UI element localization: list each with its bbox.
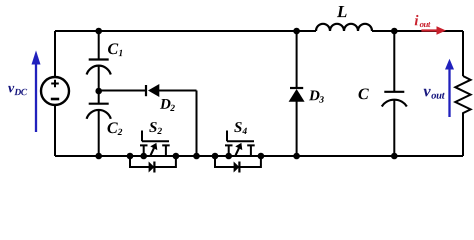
node C branch top <box>391 28 398 35</box>
node S2 source <box>140 153 147 160</box>
transistor S2 <box>140 131 170 157</box>
node D2 bottom junction <box>193 153 200 160</box>
capacitor C1 <box>87 60 111 75</box>
wire C1 bottom lead <box>98 66 100 91</box>
wire C1 top lead <box>98 31 100 60</box>
vout blue arrow <box>445 59 454 117</box>
node C branch bottom <box>391 153 398 160</box>
node S2 body branch left <box>127 153 134 160</box>
wire left rail top lead <box>54 31 56 77</box>
diode S4 body <box>234 162 240 173</box>
diode S2 body <box>149 162 155 173</box>
node D3 bottom <box>293 153 300 160</box>
wire top rail right of inductor <box>372 30 463 32</box>
wire D2 to corner <box>159 90 197 92</box>
node A middle of C1/C2 <box>95 88 102 95</box>
wire top rail left of inductor <box>55 30 316 32</box>
wire D2 corner down <box>196 91 198 157</box>
label vout <box>424 89 445 99</box>
wire C top lead <box>393 31 395 92</box>
node top of C1 branch <box>95 28 102 35</box>
wire D3 bottom lead <box>296 101 298 156</box>
label L <box>337 6 347 17</box>
node S4 source <box>225 153 232 160</box>
wire C bottom lead <box>393 100 395 156</box>
node S4 body branch right <box>258 153 265 160</box>
wire C2 top lead <box>98 91 100 104</box>
label D2 <box>160 99 175 111</box>
label S2 <box>149 122 162 134</box>
label C1 <box>108 43 122 56</box>
resistor load <box>455 76 470 117</box>
capacitor C <box>382 92 407 107</box>
node S2 body branch right <box>173 153 180 160</box>
label iout <box>415 15 431 27</box>
wire node A to D2 <box>99 90 146 92</box>
node S4 body branch left <box>212 153 219 160</box>
wire right rail bottom lead <box>462 117 464 157</box>
transistor S4 <box>225 131 255 157</box>
wire bottom rail <box>55 155 463 157</box>
vDC blue arrow <box>32 50 41 132</box>
wire S4 body diode branch <box>215 156 261 167</box>
label S4 <box>234 122 247 134</box>
diode D2 <box>146 84 159 97</box>
node D3 top <box>293 28 300 35</box>
label vDC <box>8 86 27 95</box>
label C2 <box>108 122 123 135</box>
iout red arrow <box>421 26 446 34</box>
label D3 <box>309 91 324 103</box>
wire D3 top lead <box>296 31 298 88</box>
label C <box>359 89 369 100</box>
inductor L <box>316 24 372 31</box>
wire C2 bottom lead <box>98 110 100 156</box>
voltage source vDC <box>41 77 69 105</box>
wire right rail top lead <box>462 31 464 76</box>
capacitor C2 <box>87 104 111 119</box>
wire S2 body diode branch <box>130 156 176 167</box>
wire left rail bottom lead <box>54 105 56 156</box>
diode D3 <box>289 88 305 102</box>
node bottom of C2 branch <box>95 153 102 160</box>
